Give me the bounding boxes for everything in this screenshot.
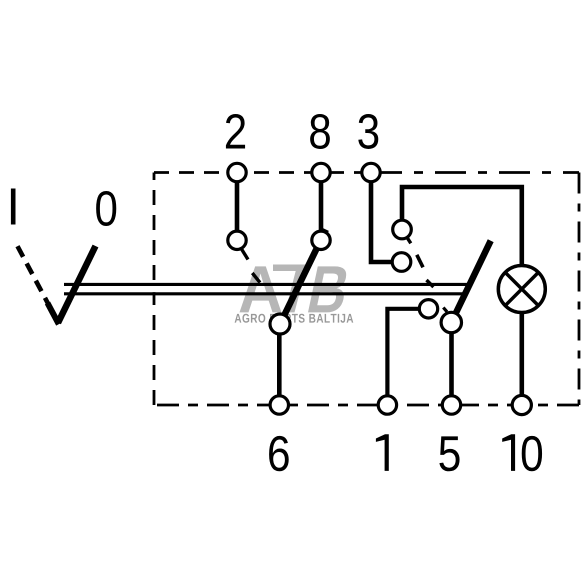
wire pivot2 to terminal5: [449, 323, 454, 403]
enclosure border bottom: [154, 404, 579, 407]
label 0: [96, 191, 116, 226]
terminal 10: [512, 395, 531, 414]
wire terminal2 stem: [235, 174, 240, 240]
actuator lever position I dashed: [18, 246, 49, 304]
terminal 2: [228, 163, 246, 181]
watermark logo letter B: [308, 266, 350, 312]
wire terminal8 stem: [319, 174, 324, 240]
watermark logo letter P styled as 7: [273, 265, 307, 313]
contact terminal 1: [419, 300, 437, 318]
coupling bar bottom edge: [64, 292, 466, 295]
contact tick at contact3: [417, 255, 423, 267]
contact tick at lamp contact: [406, 236, 411, 243]
switch arm pole1: [280, 230, 326, 325]
enclosure border top: [154, 173, 579, 406]
watermark logo letter A: [240, 266, 282, 312]
watermark text AGRO PARTS BALTIJA: [235, 314, 354, 323]
wire pivot1 to terminal6: [277, 324, 282, 403]
label 2: [226, 114, 245, 149]
pivot pole1: [270, 314, 290, 334]
label I: [11, 189, 16, 225]
lamp L: [498, 266, 545, 313]
terminal 3: [362, 163, 380, 181]
contact terminal 3: [392, 253, 411, 272]
terminal 8: [312, 163, 330, 181]
contact tick at contact1: [443, 308, 447, 312]
actuator lever vertex solid part: [48, 303, 59, 324]
coupling bar top edge: [64, 283, 470, 286]
label 1: [376, 434, 389, 471]
contact under terminal 8: [312, 231, 330, 249]
label 10: [502, 434, 515, 471]
wire terminal3 elbow: [371, 174, 402, 262]
label 5: [439, 436, 459, 471]
actuator lever position 0: [58, 246, 96, 323]
contact under terminal 2: [228, 231, 246, 249]
label 10 zero: [522, 436, 542, 471]
wire lamp feed elbow: [402, 187, 522, 268]
label 6: [269, 436, 289, 471]
terminal 5: [442, 396, 460, 414]
contact tick at contact2: [242, 249, 249, 260]
wire lamp to terminal10: [519, 311, 524, 403]
contact lamp feed: [393, 220, 412, 239]
label 3: [358, 114, 378, 149]
bar tick right: [427, 280, 434, 287]
enclosure border right: [578, 173, 581, 406]
wire terminal1 elbow: [387, 309, 428, 403]
pivot pole2: [441, 312, 461, 332]
label 8: [310, 114, 330, 149]
bar tick left: [252, 273, 260, 283]
coupling bar interior white fill: [64, 286, 468, 292]
terminal 1: [378, 396, 396, 414]
switch arm pole2: [451, 241, 490, 323]
terminal 6: [270, 396, 288, 414]
enclosure border left: [153, 173, 156, 406]
